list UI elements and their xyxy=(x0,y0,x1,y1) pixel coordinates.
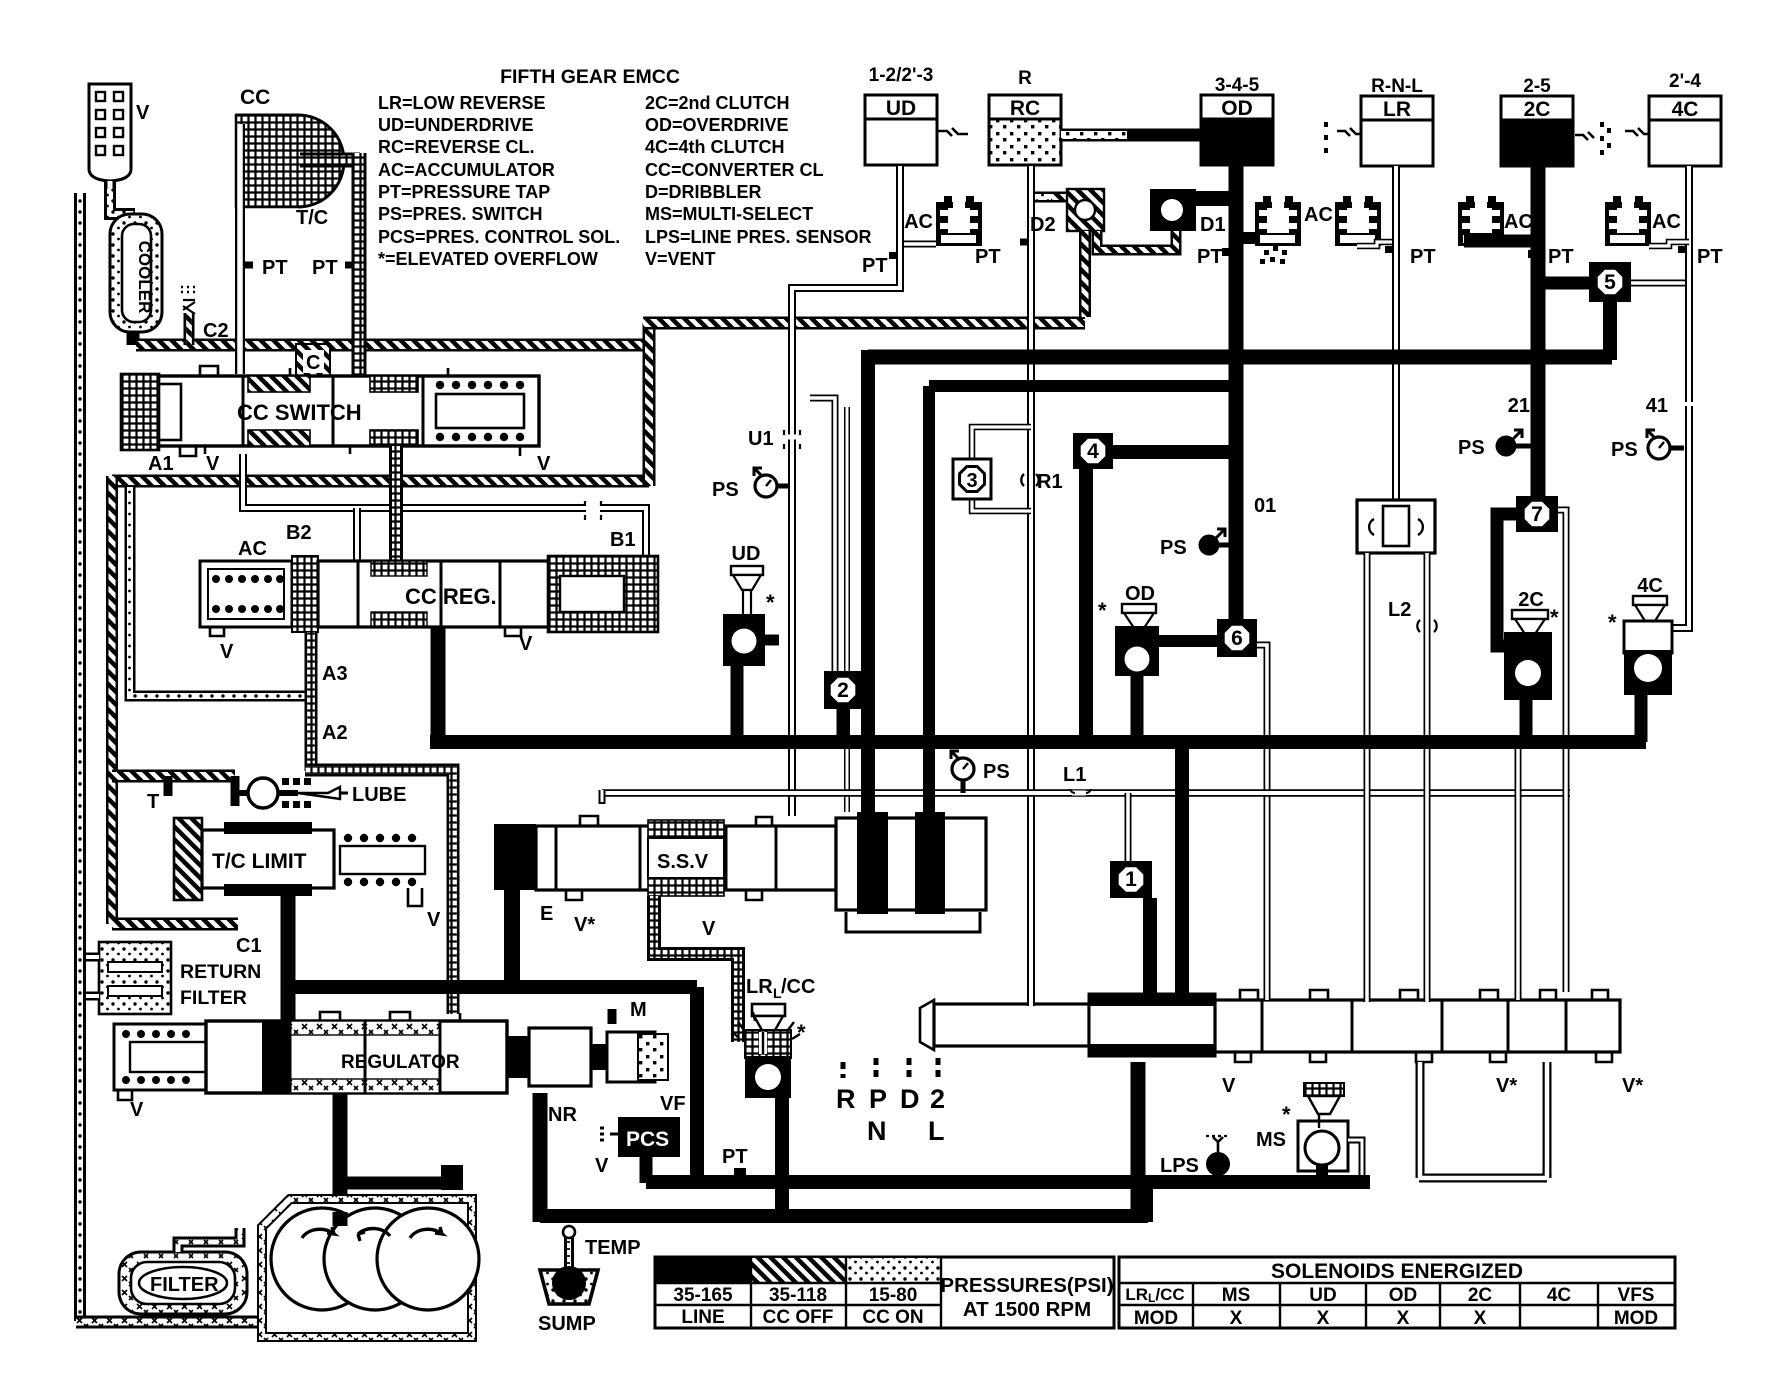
S.S.V valve body xyxy=(536,826,836,890)
svg-text:FIFTH GEAR EMCC: FIFTH GEAR EMCC xyxy=(500,66,680,88)
bottom ports xyxy=(180,446,520,456)
manual valve black center section xyxy=(1089,994,1215,1056)
thick line PCS down to bottom run xyxy=(640,1157,653,1183)
riser main line to manual valve xyxy=(1175,742,1189,1004)
4C clutch line xyxy=(1669,166,1689,628)
wire риser to manual valve xyxy=(1175,742,1189,1004)
svg-text:4: 4 xyxy=(1087,440,1099,463)
svg-text:35-118: 35-118 xyxy=(769,1285,827,1306)
LRL/CC drop to bottom run xyxy=(775,1095,789,1222)
line 2-5 to shift valve xyxy=(868,350,1612,365)
hatched riser joining cooler line, A1 line and upper CC-off run xyxy=(643,323,656,486)
LUBE orifice xyxy=(248,778,278,808)
CC REG valve body xyxy=(318,561,558,627)
svg-text:X: X xyxy=(1474,1308,1487,1329)
svg-text:3: 3 xyxy=(966,470,977,492)
line from 7 down to manual valve xyxy=(1558,510,1566,992)
svg-text:41: 41 xyxy=(1646,395,1668,417)
svg-text:B2: B2 xyxy=(286,522,312,544)
PT tick left xyxy=(245,262,253,269)
svg-text:A3: A3 xyxy=(322,663,348,685)
C grid passage down to CC REG xyxy=(389,446,403,562)
svg-text:LINE: LINE xyxy=(681,1307,724,1328)
svg-text:V: V xyxy=(136,102,150,124)
cooler xyxy=(110,214,162,332)
M port xyxy=(608,1009,617,1024)
svg-text:1: 1 xyxy=(1125,868,1137,891)
svg-text:PS: PS xyxy=(712,479,739,501)
svg-text:4C: 4C xyxy=(1672,98,1699,121)
top ports xyxy=(1240,990,1608,1000)
RC to OD feed line xyxy=(1061,129,1127,142)
svg-text:UD=UNDERDRIVE: UD=UNDERDRIVE xyxy=(378,115,534,135)
svg-text:V*: V* xyxy=(1622,1075,1643,1097)
svg-text:C2: C2 xyxy=(203,320,229,342)
hatched drop from D2 to CC-off run xyxy=(1079,231,1091,317)
svg-text:5: 5 xyxy=(1604,271,1616,294)
svg-text:VFS: VFS xyxy=(1618,1285,1655,1306)
dribbler spray xyxy=(1260,246,1287,264)
svg-text:U1: U1 xyxy=(748,428,774,450)
svg-text:35-165: 35-165 xyxy=(673,1285,733,1306)
T port stub xyxy=(168,776,235,806)
svg-text:C: C xyxy=(306,352,320,374)
svg-text:T/C: T/C xyxy=(296,207,328,229)
main line A2 xyxy=(430,735,1646,749)
accumulator AC (LR) xyxy=(1335,196,1381,246)
svg-text:AC=ACCUMULATOR: AC=ACCUMULATOR xyxy=(378,160,555,180)
valve left end cap (crosshatch) xyxy=(121,374,159,450)
svg-text:VF: VF xyxy=(660,1093,686,1115)
UD clutch line U1 xyxy=(792,166,900,816)
V* recirculation loop under valve xyxy=(1419,1062,1547,1178)
line from 6 down to manual valve xyxy=(1257,645,1267,1000)
svg-text:V: V xyxy=(206,453,220,475)
svg-text:V: V xyxy=(427,909,441,931)
dribbler D1 xyxy=(1150,189,1196,231)
svg-text:FILTER: FILTER xyxy=(150,1274,219,1296)
wire OD clutch drop xyxy=(1229,166,1244,622)
crosshatch drop from SSV to LRL/CC xyxy=(654,896,738,1042)
svg-text:X: X xyxy=(1230,1308,1243,1329)
svg-text:*: * xyxy=(1282,1102,1291,1127)
inner stippled vertical + AC-loop xyxy=(130,487,305,696)
accumulator AC (4C) xyxy=(1605,196,1651,246)
svg-text:C1: C1 xyxy=(236,935,262,957)
CC REG right crosshatched end xyxy=(548,556,658,632)
svg-text:AC: AC xyxy=(1504,211,1533,233)
svg-text:CC OFF: CC OFF xyxy=(763,1307,834,1328)
joint 21 xyxy=(1531,402,1545,406)
svg-text:4C: 4C xyxy=(1547,1285,1572,1306)
svg-text:P: P xyxy=(869,1084,887,1114)
A3 crosshatch drop xyxy=(305,632,318,771)
vent reservoir top-left xyxy=(89,84,131,181)
svg-text:T/C LIMIT: T/C LIMIT xyxy=(212,850,307,873)
svg-text:*: * xyxy=(797,1020,806,1045)
LR clutch line xyxy=(1392,166,1400,502)
svg-text:*=ELEVATED OVERFLOW: *=ELEVATED OVERFLOW xyxy=(378,249,598,269)
svg-text:N: N xyxy=(867,1116,887,1146)
bottom thick run upper xyxy=(646,1175,1370,1189)
svg-text:MOD: MOD xyxy=(1134,1308,1178,1329)
svg-text:PT=PRESSURE TAP: PT=PRESSURE TAP xyxy=(378,182,550,202)
T/C LIMIT valve body xyxy=(202,830,334,888)
svg-text:2C: 2C xyxy=(1518,589,1544,611)
orifice box 6 xyxy=(1217,619,1257,657)
svg-text:V: V xyxy=(519,633,533,655)
svg-text:COOLER: COOLER xyxy=(135,241,154,314)
svg-text:01: 01 xyxy=(1254,495,1276,517)
2C clutch thick line xyxy=(1531,166,1546,500)
TEMP thermometer xyxy=(564,1236,574,1276)
svg-text:V=VENT: V=VENT xyxy=(645,249,716,269)
svg-text:UD: UD xyxy=(1309,1285,1336,1306)
svg-text:R: R xyxy=(836,1084,856,1114)
svg-text:E: E xyxy=(540,903,553,925)
svg-text:*: * xyxy=(766,590,775,615)
vent stem xyxy=(104,181,116,193)
svg-text:UD: UD xyxy=(732,543,761,565)
svg-text:4C: 4C xyxy=(1637,575,1663,597)
svg-text:V: V xyxy=(595,1155,609,1177)
svg-text:*: * xyxy=(1098,598,1107,623)
accumulator AC (UD) xyxy=(936,196,982,246)
orifice box 7 xyxy=(1516,496,1558,532)
svg-text:MS: MS xyxy=(1256,1129,1286,1151)
svg-text:SOLENOIDS ENERGIZED: SOLENOIDS ENERGIZED xyxy=(1271,1260,1523,1283)
svg-text:LPS: LPS xyxy=(1160,1155,1199,1177)
joint 41 xyxy=(1682,402,1696,406)
orifice box 1 xyxy=(1125,793,1132,861)
main line A2 overlay xyxy=(430,735,1646,749)
C1 thick line down to regulator xyxy=(281,892,296,1020)
svg-text:2C=2nd CLUTCH: 2C=2nd CLUTCH xyxy=(645,93,790,113)
shift valve black spools right of SSV xyxy=(836,818,986,910)
pump feed thick lines xyxy=(333,1212,348,1226)
regulator right blocks xyxy=(507,1036,529,1078)
svg-text:MS=MULTI-SELECT: MS=MULTI-SELECT xyxy=(645,204,813,224)
PCS solenoid xyxy=(618,1117,680,1157)
OD clutch thick line xyxy=(1229,166,1244,622)
filter xyxy=(119,1252,247,1314)
svg-text:PT: PT xyxy=(862,255,888,277)
REGULATOR valve body xyxy=(206,1021,507,1093)
svg-text:D1: D1 xyxy=(1200,214,1226,236)
svg-text:PT: PT xyxy=(975,246,1001,268)
svg-text:V: V xyxy=(537,453,551,475)
shift valve lower outline loop xyxy=(846,912,980,932)
wire 2C clutch drop xyxy=(1531,166,1546,500)
svg-text:FILTER: FILTER xyxy=(180,987,247,1009)
svg-text:RETURN: RETURN xyxy=(180,961,261,983)
hatched link D2 to D1 xyxy=(1097,231,1176,250)
torque converter T/C dome (crosshatched) xyxy=(236,115,344,207)
svg-text:NR: NR xyxy=(548,1104,577,1126)
pump enclosure xyxy=(262,1199,472,1337)
svg-text:RC: RC xyxy=(1010,97,1040,120)
return filter xyxy=(99,942,171,1014)
solenoids energized table xyxy=(1119,1257,1675,1328)
svg-text:V: V xyxy=(1222,1075,1236,1097)
svg-text:OD=OVERDRIVE: OD=OVERDRIVE xyxy=(645,115,789,135)
pressure switch on U1 xyxy=(754,468,777,497)
svg-text:CC SWITCH: CC SWITCH xyxy=(237,400,362,425)
regulator spring box xyxy=(114,1024,206,1090)
accumulator AC (2C) xyxy=(1458,196,1504,246)
hatched block C above valve xyxy=(296,344,330,376)
svg-text:PCS: PCS xyxy=(626,1128,669,1151)
manual valve stem xyxy=(920,1000,934,1050)
svg-text:L2: L2 xyxy=(1388,599,1411,621)
svg-text:PCS=PRES. CONTROL SOL.: PCS=PRES. CONTROL SOL. xyxy=(378,227,620,247)
svg-text:PS=PRES. SWITCH: PS=PRES. SWITCH xyxy=(378,204,543,224)
upper CC-off hatched run to D2 xyxy=(643,317,1085,330)
pressure switch on OD line xyxy=(1199,529,1226,556)
svg-text:A2: A2 xyxy=(322,722,348,744)
7 loop to solenoid 2C xyxy=(1497,514,1520,646)
svg-text:PT: PT xyxy=(262,257,288,279)
spool lands xyxy=(243,376,423,446)
spring (dots) right section xyxy=(436,381,524,441)
svg-text:TEMP: TEMP xyxy=(585,1237,641,1259)
thick line regulator bottom right to lower run xyxy=(533,1093,548,1222)
bottom ports labels xyxy=(566,890,762,900)
svg-text:CC: CC xyxy=(240,86,270,109)
svg-text:PS: PS xyxy=(983,761,1010,783)
sump enclosure left wall xyxy=(76,1316,270,1329)
line from main line to manual valve port xyxy=(1515,742,1522,1000)
bottom ports xyxy=(1235,1052,1612,1062)
svg-text:PT: PT xyxy=(1197,246,1223,268)
A1 hatched pipe under valve xyxy=(112,475,649,488)
svg-text:UD: UD xyxy=(886,97,916,120)
wire risers to shift valve xyxy=(861,350,875,818)
svg-text:SUMP: SUMP xyxy=(538,1313,596,1335)
svg-text:PT: PT xyxy=(722,1146,748,1168)
svg-text:S.S.V: S.S.V xyxy=(657,851,709,873)
svg-text:LPS=LINE PRES. SENSOR: LPS=LINE PRES. SENSOR xyxy=(645,227,872,247)
dribbler feed (stippled+hatched) xyxy=(1035,192,1053,203)
orifice box 5 xyxy=(1545,277,1595,290)
svg-text:PT: PT xyxy=(1410,246,1436,268)
joint 01 xyxy=(1229,497,1243,501)
svg-text:OD: OD xyxy=(1389,1285,1418,1306)
svg-text:*: * xyxy=(1550,605,1559,630)
svg-text:X: X xyxy=(1397,1308,1410,1329)
svg-text:PS: PS xyxy=(1611,439,1638,461)
svg-text:LRL/CC: LRL/CC xyxy=(1125,1285,1184,1305)
svg-text:1-2/2'-3: 1-2/2'-3 xyxy=(869,65,934,86)
thick supply line to S.S.V zone xyxy=(282,980,697,994)
manual valve right body xyxy=(1215,1000,1620,1052)
crosshatch divider xyxy=(292,556,318,632)
svg-text:V: V xyxy=(220,641,234,663)
hatched enclosure around T/C LIMIT xyxy=(112,770,235,783)
accumulator AC (OD) xyxy=(1243,232,1257,244)
wire 4-box drop xyxy=(1079,469,1093,742)
svg-text:CC ON: CC ON xyxy=(862,1307,923,1328)
svg-text:R: R xyxy=(1018,68,1032,89)
pressure legend table xyxy=(655,1257,1114,1328)
svg-text:V: V xyxy=(130,1099,144,1121)
svg-text:V: V xyxy=(702,918,716,940)
svg-text:V*: V* xyxy=(574,914,595,936)
svg-text:A1: A1 xyxy=(148,453,174,475)
svg-text:L: L xyxy=(928,1116,945,1146)
S.S.V crosshatch center xyxy=(648,820,724,838)
svg-text:PT: PT xyxy=(1548,246,1574,268)
svg-text:AC: AC xyxy=(238,538,267,560)
SUMP cup xyxy=(540,1270,598,1304)
svg-text:PS: PS xyxy=(1160,537,1187,559)
A2 hatched run right and riser to regulator zone xyxy=(305,770,453,1014)
svg-text:REGULATOR: REGULATOR xyxy=(341,1052,460,1073)
top ports xyxy=(580,816,772,826)
svg-text:2-5: 2-5 xyxy=(1523,76,1551,97)
svg-text:2: 2 xyxy=(837,679,849,702)
line OD to shift valve xyxy=(929,380,1240,392)
hatched drop right of A2 (to regulator zone) xyxy=(452,1013,454,1015)
svg-text:PS: PS xyxy=(1458,437,1485,459)
top ports xyxy=(200,366,448,376)
valve L2 xyxy=(1357,500,1435,553)
hatched spool segments xyxy=(248,376,310,392)
CC SWITCH valve body xyxy=(158,376,539,446)
gear selector ticks xyxy=(843,1058,938,1078)
svg-text:B1: B1 xyxy=(610,529,636,551)
orifice box 2 xyxy=(824,671,862,709)
svg-text:L1: L1 xyxy=(1063,764,1086,786)
svg-text:AC: AC xyxy=(1652,211,1681,233)
C2 valve xyxy=(184,313,195,345)
svg-text:AC: AC xyxy=(1304,204,1333,226)
L2 outlet lines to manual valve xyxy=(1364,553,1371,1002)
PT tick right xyxy=(345,262,354,269)
svg-text:R-N-L: R-N-L xyxy=(1371,76,1423,97)
port and label V under valve xyxy=(505,627,521,636)
svg-text:OD: OD xyxy=(1221,97,1253,120)
MS solenoid xyxy=(1304,1083,1344,1096)
line to orifice 2 xyxy=(810,398,835,671)
svg-text:/CC: /CC xyxy=(781,976,815,998)
accumulator spring box left of CC REG xyxy=(200,561,292,627)
thick line regulator to pumps xyxy=(333,1093,348,1183)
svg-text:CC REG.: CC REG. xyxy=(405,584,497,609)
svg-text:CC=CONVERTER CL: CC=CONVERTER CL xyxy=(645,160,824,180)
svg-text:OD: OD xyxy=(1125,583,1155,605)
svg-text:PT: PT xyxy=(312,257,338,279)
svg-text:D=DRIBBLER: D=DRIBBLER xyxy=(645,182,762,202)
orifice box 4 and drop to main line xyxy=(1100,445,1240,459)
cooler outlet hatched pipe to A-junction xyxy=(127,332,140,345)
line L1 xyxy=(602,789,1570,797)
svg-text:*: * xyxy=(1608,610,1617,635)
orifice loop 3 / R1 xyxy=(972,427,1031,459)
LRL/CC solenoid xyxy=(752,1004,785,1016)
T/C inner release line down to CC switch xyxy=(235,124,245,374)
svg-text:2C: 2C xyxy=(1468,1285,1493,1306)
RC clutch line xyxy=(1027,166,1035,1006)
svg-text:PRESSURES(PSI): PRESSURES(PSI) xyxy=(940,1274,1113,1297)
svg-text:LR=LOW REVERSE: LR=LOW REVERSE xyxy=(378,93,546,113)
svg-text:AT 1500 RPM: AT 1500 RPM xyxy=(963,1298,1091,1321)
cooler feed elbow xyxy=(110,189,135,214)
svg-text:AC: AC xyxy=(904,211,933,233)
svg-text:3-4-5: 3-4-5 xyxy=(1215,75,1260,96)
pump circles xyxy=(271,1208,373,1310)
wire OD supply run xyxy=(929,380,1240,392)
svg-text:2'-4: 2'-4 xyxy=(1669,71,1701,92)
svg-text:RC=REVERSE CL.: RC=REVERSE CL. xyxy=(378,137,535,157)
svg-text:PT: PT xyxy=(1697,246,1723,268)
left hatched vertical (A1 down) xyxy=(106,476,118,924)
svg-text:V*: V* xyxy=(1496,1075,1517,1097)
svg-text:LR: LR xyxy=(1383,98,1411,121)
T/C right grid pipe (to CC switch) xyxy=(300,153,360,168)
B2 line from valve to CC REG xyxy=(243,454,646,558)
svg-text:T: T xyxy=(147,791,159,813)
svg-text:4C=4th CLUTCH: 4C=4th CLUTCH xyxy=(645,137,785,157)
spring dots right xyxy=(344,834,416,886)
filter outlet pipe xyxy=(178,1228,240,1252)
thick line CC REG down to A2 main line xyxy=(431,627,446,742)
wire 2C supply run xyxy=(868,350,1612,365)
LPS sensor xyxy=(1206,1152,1230,1176)
svg-text:R1: R1 xyxy=(1037,471,1063,493)
svg-text:D: D xyxy=(900,1084,920,1114)
left sump return vertical pipe xyxy=(74,193,86,1321)
svg-text:LR: LR xyxy=(746,976,773,998)
bottom thick run lower xyxy=(540,1209,1148,1223)
svg-text:MOD: MOD xyxy=(1614,1308,1658,1329)
svg-text:X: X xyxy=(1317,1308,1330,1329)
svg-text:7: 7 xyxy=(1531,503,1543,526)
svg-text:15-80: 15-80 xyxy=(869,1285,918,1306)
regulator top ports xyxy=(320,1012,460,1021)
svg-text:21: 21 xyxy=(1508,395,1530,417)
svg-text:LUBE: LUBE xyxy=(352,784,406,806)
E block xyxy=(494,824,536,890)
svg-text:2: 2 xyxy=(930,1084,945,1114)
svg-text:MS: MS xyxy=(1222,1285,1251,1306)
T/C LIMIT hatched piston xyxy=(174,818,202,900)
svg-text:D2: D2 xyxy=(1030,214,1056,236)
dribbler D2 xyxy=(1067,189,1104,231)
wire bottom feeds xyxy=(646,1175,1370,1189)
svg-text:M: M xyxy=(630,999,647,1021)
svg-text:6: 6 xyxy=(1231,627,1243,650)
svg-text:2C: 2C xyxy=(1524,98,1551,121)
